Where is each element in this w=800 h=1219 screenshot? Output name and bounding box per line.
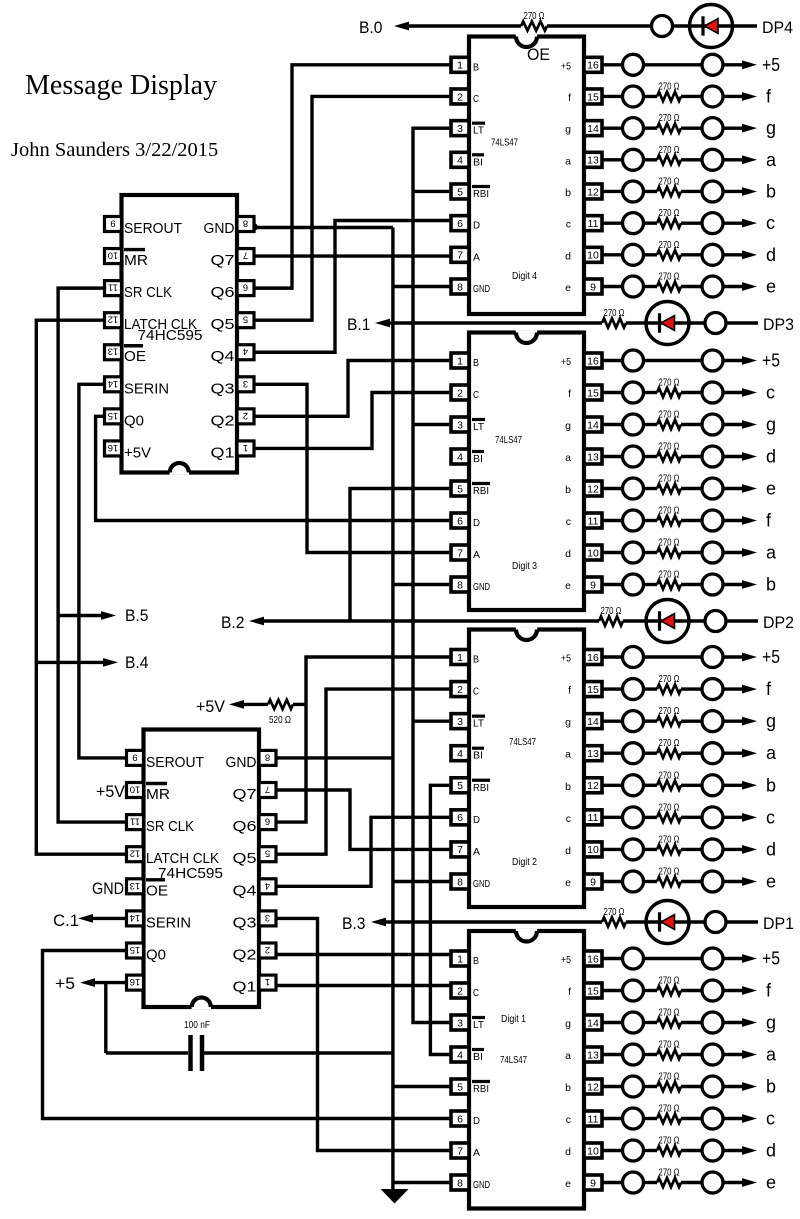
- svg-text:B.3: B.3: [342, 914, 366, 933]
- svg-text:8: 8: [243, 218, 248, 229]
- svg-text:14: 14: [130, 912, 141, 923]
- svg-text:14: 14: [587, 123, 599, 135]
- svg-text:4: 4: [265, 880, 270, 891]
- svg-text:Digit 4: Digit 4: [512, 270, 537, 282]
- svg-text:9: 9: [590, 876, 596, 888]
- svg-text:10: 10: [587, 1145, 599, 1157]
- svg-text:A: A: [473, 846, 480, 858]
- svg-text:15: 15: [587, 985, 599, 997]
- svg-text:270 Ω: 270 Ω: [659, 1135, 680, 1147]
- svg-text:10: 10: [130, 784, 141, 795]
- svg-text:b: b: [565, 1082, 571, 1094]
- svg-text:D: D: [473, 517, 480, 529]
- svg-text:270 Ω: 270 Ω: [659, 112, 680, 124]
- svg-text:g: g: [766, 711, 776, 731]
- svg-text:d: d: [565, 250, 571, 262]
- svg-text:12: 12: [587, 780, 599, 792]
- svg-text:Digit 3: Digit 3: [512, 560, 537, 572]
- svg-text:+5: +5: [762, 55, 780, 75]
- svg-text:B: B: [473, 357, 479, 369]
- svg-text:74LS47: 74LS47: [500, 1054, 527, 1066]
- svg-text:270 Ω: 270 Ω: [659, 175, 680, 187]
- svg-text:MR: MR: [124, 253, 148, 269]
- svg-text:1: 1: [457, 355, 463, 367]
- svg-text:e: e: [766, 479, 776, 499]
- svg-text:3: 3: [457, 1017, 463, 1029]
- svg-text:3: 3: [457, 419, 463, 431]
- svg-text:8: 8: [457, 1177, 463, 1189]
- svg-text:g: g: [565, 1018, 571, 1030]
- svg-text:b: b: [565, 781, 571, 793]
- svg-text:C: C: [473, 93, 479, 105]
- svg-text:12: 12: [108, 314, 119, 325]
- svg-text:4: 4: [457, 1049, 463, 1061]
- svg-text:270 Ω: 270 Ω: [601, 605, 622, 617]
- svg-text:9: 9: [110, 218, 115, 229]
- svg-text:16: 16: [587, 953, 599, 965]
- svg-text:7: 7: [457, 844, 463, 856]
- svg-text:e: e: [565, 1178, 571, 1190]
- svg-text:b: b: [766, 1077, 776, 1097]
- svg-text:d: d: [565, 845, 571, 857]
- svg-text:520 Ω: 520 Ω: [269, 714, 291, 726]
- svg-text:Q0: Q0: [124, 413, 144, 429]
- svg-text:a: a: [766, 543, 777, 563]
- svg-text:5: 5: [457, 1081, 463, 1093]
- svg-text:+5V: +5V: [124, 445, 151, 461]
- svg-text:270 Ω: 270 Ω: [659, 473, 680, 485]
- svg-text:2: 2: [243, 410, 248, 421]
- svg-text:Q2: Q2: [211, 413, 235, 429]
- svg-text:74HC595: 74HC595: [138, 327, 203, 344]
- svg-text:270 Ω: 270 Ω: [659, 673, 680, 685]
- svg-text:270 Ω: 270 Ω: [659, 705, 680, 717]
- svg-text:10: 10: [587, 547, 599, 559]
- svg-text:14: 14: [108, 378, 119, 389]
- svg-text:b: b: [565, 187, 571, 199]
- svg-text:D: D: [473, 1115, 480, 1127]
- svg-text:10: 10: [587, 250, 599, 262]
- svg-text:B.4: B.4: [125, 653, 149, 672]
- svg-text:7: 7: [457, 250, 463, 262]
- svg-text:g: g: [565, 717, 571, 729]
- svg-text:Q4: Q4: [233, 883, 257, 899]
- svg-text:BI: BI: [473, 1051, 483, 1063]
- svg-text:270 Ω: 270 Ω: [659, 537, 680, 549]
- svg-text:10: 10: [108, 250, 119, 261]
- svg-text:8: 8: [457, 281, 463, 293]
- svg-text:270 Ω: 270 Ω: [604, 906, 625, 918]
- svg-text:11: 11: [588, 218, 599, 230]
- svg-text:B.2: B.2: [221, 613, 245, 632]
- svg-text:270 Ω: 270 Ω: [604, 307, 625, 319]
- svg-text:GND: GND: [226, 755, 257, 771]
- svg-text:B: B: [473, 61, 479, 73]
- svg-text:c: c: [566, 1114, 571, 1126]
- svg-text:DP1: DP1: [763, 914, 794, 933]
- svg-text:15: 15: [130, 944, 141, 955]
- svg-text:9: 9: [590, 579, 596, 591]
- svg-text:c: c: [566, 219, 571, 231]
- svg-text:4: 4: [457, 748, 463, 760]
- svg-text:John Saunders 3/22/2015: John Saunders 3/22/2015: [11, 139, 218, 161]
- svg-text:+5: +5: [561, 60, 571, 72]
- svg-text:2: 2: [457, 387, 463, 399]
- svg-text:Q2: Q2: [233, 948, 257, 964]
- svg-text:270 Ω: 270 Ω: [659, 441, 680, 453]
- svg-text:7: 7: [457, 1145, 463, 1157]
- svg-text:13: 13: [587, 451, 599, 463]
- svg-text:GND: GND: [204, 221, 235, 237]
- svg-text:c: c: [766, 383, 775, 403]
- svg-text:RBI: RBI: [473, 485, 489, 497]
- svg-text:12: 12: [130, 848, 141, 859]
- svg-text:5: 5: [243, 314, 248, 325]
- svg-text:3: 3: [265, 912, 270, 923]
- svg-text:2: 2: [265, 944, 270, 955]
- svg-text:e: e: [565, 877, 571, 889]
- svg-text:a: a: [766, 150, 777, 170]
- svg-text:100 nF: 100 nF: [184, 1019, 210, 1031]
- svg-text:C.1: C.1: [53, 911, 79, 930]
- svg-text:11: 11: [130, 816, 140, 827]
- svg-text:c: c: [766, 1109, 775, 1129]
- svg-text:5: 5: [457, 780, 463, 792]
- svg-text:RBI: RBI: [473, 782, 489, 794]
- svg-text:A: A: [473, 549, 480, 561]
- svg-text:OE: OE: [124, 349, 146, 365]
- svg-text:11: 11: [588, 812, 599, 824]
- svg-text:SR CLK: SR CLK: [124, 285, 172, 301]
- svg-text:270 Ω: 270 Ω: [659, 505, 680, 517]
- svg-text:SERIN: SERIN: [146, 915, 191, 931]
- svg-text:14: 14: [587, 1017, 599, 1029]
- svg-text:LT: LT: [473, 125, 485, 137]
- svg-text:11: 11: [588, 515, 599, 527]
- svg-text:b: b: [766, 775, 776, 795]
- svg-text:3: 3: [243, 378, 248, 389]
- svg-text:GND: GND: [473, 581, 490, 593]
- svg-text:6: 6: [265, 816, 270, 827]
- svg-text:1: 1: [457, 953, 463, 965]
- svg-text:e: e: [565, 580, 571, 592]
- svg-text:c: c: [566, 516, 571, 528]
- svg-text:Q4: Q4: [211, 349, 235, 365]
- svg-text:g: g: [766, 415, 776, 435]
- svg-text:LT: LT: [473, 718, 485, 730]
- svg-text:RBI: RBI: [473, 188, 489, 200]
- svg-text:Q7: Q7: [211, 253, 235, 269]
- svg-text:16: 16: [587, 355, 599, 367]
- svg-text:270 Ω: 270 Ω: [659, 270, 680, 282]
- svg-text:2: 2: [457, 91, 463, 103]
- svg-text:g: g: [565, 420, 571, 432]
- svg-text:Q5: Q5: [233, 851, 257, 867]
- svg-text:+5: +5: [561, 954, 571, 966]
- svg-text:74LS47: 74LS47: [491, 137, 518, 149]
- svg-text:GND: GND: [473, 283, 490, 295]
- svg-text:b: b: [766, 575, 776, 595]
- svg-text:B: B: [473, 654, 479, 666]
- svg-text:e: e: [565, 282, 571, 294]
- svg-text:270 Ω: 270 Ω: [659, 975, 680, 987]
- svg-text:C: C: [473, 987, 479, 999]
- svg-text:d: d: [766, 839, 776, 859]
- svg-text:Q6: Q6: [233, 819, 257, 835]
- svg-text:270 Ω: 270 Ω: [659, 409, 680, 421]
- svg-text:15: 15: [587, 91, 599, 103]
- svg-text:5: 5: [265, 848, 270, 859]
- svg-text:15: 15: [587, 684, 599, 696]
- svg-text:LT: LT: [473, 1019, 485, 1031]
- svg-text:7: 7: [265, 784, 270, 795]
- svg-text:13: 13: [587, 748, 599, 760]
- svg-text:g: g: [766, 1013, 776, 1033]
- svg-text:9: 9: [590, 1177, 596, 1189]
- svg-text:d: d: [565, 548, 571, 560]
- svg-text:+5: +5: [55, 974, 75, 993]
- svg-text:c: c: [766, 807, 775, 827]
- svg-text:e: e: [766, 276, 776, 296]
- svg-text:Q1: Q1: [211, 445, 235, 461]
- svg-text:Message Display: Message Display: [25, 70, 217, 101]
- svg-text:13: 13: [587, 1049, 599, 1061]
- svg-text:16: 16: [587, 60, 599, 72]
- svg-text:6: 6: [457, 218, 463, 230]
- svg-text:270 Ω: 270 Ω: [659, 1167, 680, 1179]
- svg-text:2: 2: [457, 684, 463, 696]
- svg-text:B.0: B.0: [359, 18, 383, 37]
- svg-text:C: C: [473, 389, 479, 401]
- svg-text:BI: BI: [473, 156, 483, 168]
- svg-text:f: f: [568, 685, 571, 697]
- svg-text:a: a: [766, 1045, 777, 1065]
- svg-text:4: 4: [457, 155, 463, 167]
- svg-text:+5V: +5V: [196, 697, 226, 716]
- svg-text:d: d: [766, 447, 776, 467]
- svg-text:SEROUT: SEROUT: [146, 755, 204, 771]
- svg-text:270 Ω: 270 Ω: [659, 865, 680, 877]
- svg-text:OE: OE: [146, 883, 168, 899]
- svg-text:e: e: [766, 1173, 776, 1193]
- svg-text:d: d: [565, 1146, 571, 1158]
- svg-text:B.5: B.5: [125, 606, 149, 625]
- svg-text:BI: BI: [473, 750, 483, 762]
- svg-text:2: 2: [457, 985, 463, 997]
- svg-text:14: 14: [587, 716, 599, 728]
- svg-text:g: g: [766, 118, 776, 138]
- svg-text:A: A: [473, 1147, 480, 1159]
- svg-text:GND: GND: [473, 1179, 490, 1191]
- svg-text:SERIN: SERIN: [124, 381, 169, 397]
- svg-text:74HC595: 74HC595: [158, 865, 223, 882]
- svg-text:270 Ω: 270 Ω: [659, 769, 680, 781]
- svg-text:d: d: [766, 245, 776, 265]
- svg-text:A: A: [473, 251, 480, 263]
- svg-text:OE: OE: [527, 45, 550, 64]
- svg-text:5: 5: [457, 186, 463, 198]
- svg-text:Digit 1: Digit 1: [501, 1013, 526, 1025]
- svg-text:BI: BI: [473, 453, 483, 465]
- svg-text:c: c: [766, 213, 775, 233]
- svg-text:270 Ω: 270 Ω: [659, 569, 680, 581]
- svg-text:6: 6: [243, 282, 248, 293]
- svg-text:B.1: B.1: [347, 315, 371, 334]
- svg-text:Q1: Q1: [233, 980, 257, 996]
- svg-text:14: 14: [587, 419, 599, 431]
- svg-text:74LS47: 74LS47: [509, 736, 536, 748]
- svg-text:6: 6: [457, 515, 463, 527]
- svg-text:B: B: [473, 955, 479, 967]
- svg-text:Q6: Q6: [211, 285, 235, 301]
- svg-text:270 Ω: 270 Ω: [659, 801, 680, 813]
- svg-text:4: 4: [243, 346, 248, 357]
- svg-text:f: f: [568, 92, 571, 104]
- svg-text:C: C: [473, 686, 479, 698]
- svg-text:a: a: [565, 155, 571, 167]
- svg-text:74LS47: 74LS47: [495, 434, 522, 446]
- svg-text:a: a: [565, 452, 571, 464]
- svg-text:11: 11: [588, 1113, 599, 1125]
- svg-text:9: 9: [132, 751, 137, 762]
- svg-text:8: 8: [457, 579, 463, 591]
- svg-text:270 Ω: 270 Ω: [659, 1103, 680, 1115]
- svg-text:GND: GND: [473, 878, 490, 890]
- svg-text:a: a: [766, 743, 777, 763]
- svg-text:6: 6: [457, 812, 463, 824]
- svg-text:9: 9: [590, 281, 596, 293]
- svg-text:1: 1: [265, 976, 270, 987]
- svg-text:c: c: [566, 813, 571, 825]
- svg-text:7: 7: [243, 250, 248, 261]
- svg-text:D: D: [473, 814, 480, 826]
- svg-text:4: 4: [457, 451, 463, 463]
- svg-text:6: 6: [457, 1113, 463, 1125]
- svg-text:SEROUT: SEROUT: [124, 221, 182, 237]
- svg-text:270 Ω: 270 Ω: [659, 144, 680, 156]
- svg-text:+5: +5: [762, 647, 780, 667]
- svg-text:10: 10: [587, 844, 599, 856]
- svg-text:11: 11: [108, 282, 118, 293]
- svg-text:270 Ω: 270 Ω: [659, 737, 680, 749]
- svg-text:g: g: [565, 124, 571, 136]
- svg-text:5: 5: [457, 483, 463, 495]
- svg-text:1: 1: [243, 442, 248, 453]
- svg-text:270 Ω: 270 Ω: [659, 207, 680, 219]
- svg-text:RBI: RBI: [473, 1083, 489, 1095]
- svg-text:270 Ω: 270 Ω: [659, 377, 680, 389]
- svg-text:DP4: DP4: [762, 18, 793, 37]
- svg-text:270 Ω: 270 Ω: [659, 80, 680, 92]
- svg-text:270 Ω: 270 Ω: [659, 1071, 680, 1083]
- svg-text:8: 8: [265, 751, 270, 762]
- svg-text:270 Ω: 270 Ω: [659, 1039, 680, 1051]
- svg-text:Q3: Q3: [211, 381, 235, 397]
- svg-text:MR: MR: [146, 787, 170, 803]
- svg-text:GND: GND: [92, 879, 124, 898]
- svg-text:1: 1: [457, 60, 463, 72]
- svg-text:+5: +5: [561, 356, 571, 368]
- svg-text:7: 7: [457, 547, 463, 559]
- svg-text:f: f: [568, 986, 571, 998]
- svg-text:+5: +5: [762, 949, 780, 969]
- svg-text:15: 15: [108, 410, 119, 421]
- svg-text:DP2: DP2: [763, 613, 794, 632]
- svg-text:Digit 2: Digit 2: [512, 856, 537, 868]
- svg-text:270 Ω: 270 Ω: [659, 239, 680, 251]
- svg-text:+5: +5: [762, 351, 780, 371]
- svg-text:13: 13: [587, 155, 599, 167]
- svg-text:a: a: [565, 1050, 571, 1062]
- svg-text:270 Ω: 270 Ω: [524, 10, 545, 22]
- svg-text:8: 8: [457, 876, 463, 888]
- svg-text:SR CLK: SR CLK: [146, 819, 194, 835]
- svg-text:16: 16: [108, 442, 119, 453]
- svg-text:16: 16: [130, 976, 141, 987]
- svg-text:1: 1: [457, 652, 463, 664]
- svg-text:Q5: Q5: [211, 317, 235, 333]
- svg-text:D: D: [473, 220, 480, 232]
- svg-text:e: e: [766, 871, 776, 891]
- svg-text:a: a: [565, 749, 571, 761]
- svg-text:DP3: DP3: [763, 315, 794, 334]
- svg-text:15: 15: [587, 387, 599, 399]
- svg-text:270 Ω: 270 Ω: [659, 833, 680, 845]
- svg-text:16: 16: [587, 652, 599, 664]
- svg-text:+5V: +5V: [96, 782, 126, 801]
- svg-text:13: 13: [130, 880, 141, 891]
- svg-text:LT: LT: [473, 421, 485, 433]
- svg-text:+5: +5: [561, 653, 571, 665]
- svg-text:270 Ω: 270 Ω: [659, 1007, 680, 1019]
- svg-text:3: 3: [457, 716, 463, 728]
- svg-text:12: 12: [587, 1081, 599, 1093]
- svg-text:13: 13: [108, 346, 119, 357]
- svg-text:3: 3: [457, 123, 463, 135]
- svg-text:Q3: Q3: [233, 915, 257, 931]
- svg-text:12: 12: [587, 483, 599, 495]
- svg-text:d: d: [766, 1141, 776, 1161]
- svg-text:Q0: Q0: [146, 948, 166, 964]
- svg-text:b: b: [565, 484, 571, 496]
- svg-text:f: f: [568, 388, 571, 400]
- svg-text:Q7: Q7: [233, 787, 257, 803]
- svg-text:b: b: [766, 181, 776, 201]
- svg-text:12: 12: [587, 186, 599, 198]
